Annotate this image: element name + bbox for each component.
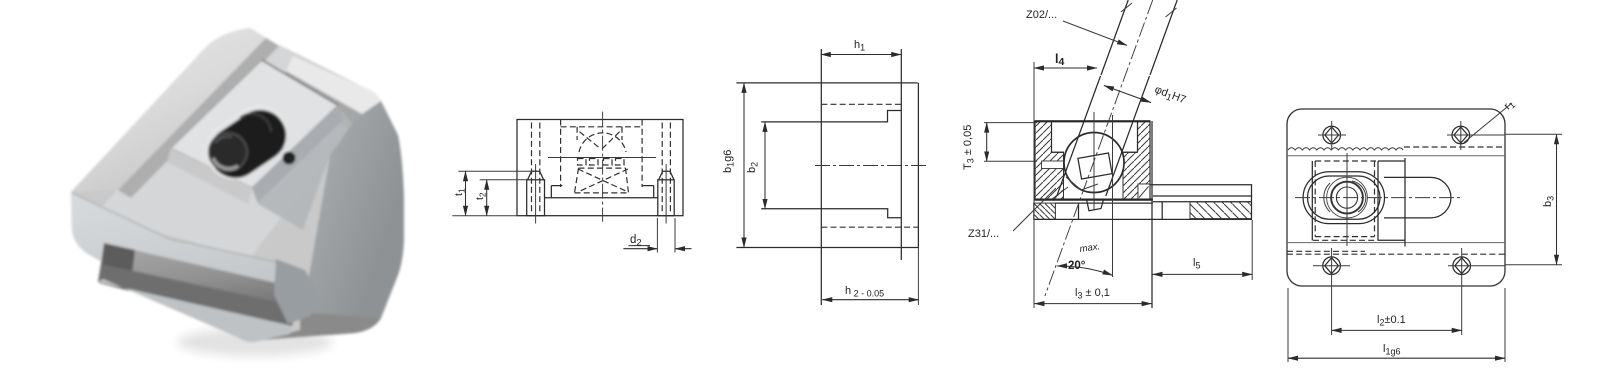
top region fill	[95, 33, 375, 258]
pin tip below block	[1087, 199, 1104, 210]
slot bottom shadow	[98, 264, 296, 326]
l3 dimension	[1034, 303, 1151, 305]
d2 extensions	[657, 218, 675, 253]
groove bottom profile	[761, 209, 901, 218]
hidden pocket trapezoid	[575, 168, 629, 193]
svg-text:b3: b3	[1542, 196, 1556, 207]
ridge line	[72, 193, 276, 262]
plate bottom line	[1287, 242, 1505, 244]
svg-text:l4: l4	[1055, 52, 1064, 68]
h1 dimension	[821, 54, 901, 56]
insert top	[171, 60, 338, 188]
b3 extensions	[1505, 134, 1562, 264]
pin tip rect	[1078, 153, 1112, 179]
svg-text:Z31/...: Z31/...	[968, 228, 999, 240]
bottom dashed lines	[1287, 250, 1365, 252]
bore highlight crescent	[213, 158, 238, 169]
Z31 leader	[1013, 188, 1056, 231]
hole bottom-right	[1453, 257, 1471, 275]
keyhole slot	[1384, 177, 1451, 218]
svg-text:Z02/...: Z02/...	[1026, 9, 1057, 21]
front face	[71, 192, 303, 342]
lower lip	[98, 279, 292, 342]
svg-text:φd1H7: φd1H7	[1152, 84, 1187, 108]
left wall hatch	[1035, 121, 1064, 199]
l5 right extension	[1251, 220, 1253, 280]
slot top edges	[1052, 121, 1138, 152]
plate top line	[1287, 155, 1505, 157]
inner rect A	[1312, 158, 1405, 247]
r1 leader	[1464, 103, 1512, 143]
pad right	[658, 180, 674, 216]
T3 dimension	[986, 123, 988, 162]
t1 dimension	[465, 171, 467, 216]
angle reference vertical	[1112, 115, 1114, 277]
block top edge thick	[1035, 120, 1150, 122]
right rail top	[286, 56, 381, 114]
pin left edge	[1101, 0, 1128, 75]
hidden line bottom	[821, 226, 918, 228]
phi d1 arrow	[1104, 86, 1151, 103]
t1 extension	[458, 170, 536, 172]
body outline	[517, 120, 683, 216]
insert shadow right	[252, 106, 352, 230]
hidden pocket X	[578, 169, 628, 192]
pin bore lines through ball	[1057, 76, 1150, 196]
horizontal centerline	[1295, 197, 1462, 199]
left rail inner wall	[118, 38, 279, 198]
seat line	[1052, 177, 1098, 199]
svg-text:max.: max.	[1079, 241, 1101, 255]
block outline	[1035, 121, 1150, 199]
tongue left edge	[820, 49, 822, 305]
svg-text:h 2 - 0.05: h 2 - 0.05	[845, 285, 884, 299]
oblong hole rim highlight	[196, 96, 297, 189]
right face	[303, 101, 404, 335]
pad centerline left	[535, 164, 537, 224]
svg-text:T3 ± 0,05: T3 ± 0,05	[962, 125, 976, 170]
center circles	[1331, 182, 1363, 214]
dark band	[274, 259, 322, 324]
VIEW5 top view	[1287, 97, 1562, 362]
plate left hatch square	[1034, 203, 1056, 219]
keyhole notch	[283, 152, 296, 165]
hole top-right	[1452, 126, 1470, 144]
l1g6 dimension	[1288, 357, 1505, 359]
b1g6 dimension	[743, 83, 745, 248]
VIEW3 side view	[722, 39, 926, 305]
counterbore arc	[240, 114, 271, 132]
horizontal centerline	[548, 157, 656, 159]
hidden line top	[821, 103, 901, 105]
plate bottom line	[1034, 218, 1252, 220]
pad left	[527, 180, 545, 216]
hidden hole lines right pad	[662, 123, 670, 215]
hidden funnel	[580, 132, 620, 149]
l2 extension lines (hole centerlines)	[1332, 248, 1462, 335]
pad right dome	[659, 171, 674, 180]
center vertical centerline	[602, 112, 604, 222]
svg-text:d2: d2	[630, 234, 642, 249]
bore hole ring	[209, 133, 247, 171]
Z02 leader	[1063, 21, 1127, 45]
bottom right rim	[262, 312, 381, 340]
svg-text:t1: t1	[453, 188, 466, 196]
svg-text:b2: b2	[746, 162, 760, 173]
svg-text:l5: l5	[1193, 257, 1200, 271]
top dashed line	[1404, 146, 1505, 148]
b2 dimension	[764, 122, 766, 209]
sketch arcs	[1324, 181, 1366, 212]
right edge vertical / l3 extension	[1151, 121, 1153, 308]
plate recess vertical	[1078, 203, 1080, 219]
right wall square diagonal	[1139, 187, 1149, 198]
hidden hole lines left pad	[532, 123, 540, 215]
left rail top	[71, 28, 266, 192]
20 deg arc	[1057, 266, 1113, 275]
svg-text:l2±0.1: l2±0.1	[1377, 314, 1406, 328]
step shoulder right	[643, 186, 654, 198]
l4 dimension	[1034, 67, 1097, 69]
T3 extensions	[984, 123, 1037, 162]
VIEW4 section view	[962, 0, 1252, 308]
feature vertical centerline	[1346, 153, 1348, 246]
slot recess	[98, 243, 298, 326]
right rail front wall	[280, 71, 362, 131]
t2 extension	[480, 179, 527, 181]
ball	[1064, 133, 1124, 193]
d2 dimension	[623, 248, 657, 250]
insert right crease	[262, 60, 338, 105]
l5 dimension	[1153, 273, 1253, 275]
pin axis dash-dot	[1045, 0, 1153, 296]
left extension line l4/l3	[1033, 62, 1035, 308]
inner rect B dashed	[1313, 161, 1378, 240]
svg-text:l1g6: l1g6	[1383, 343, 1400, 357]
left wall groove (white notch)	[1042, 161, 1064, 169]
right edge	[917, 83, 919, 248]
horizontal centerline	[815, 165, 926, 167]
h2 right extension	[917, 248, 919, 306]
plate top line	[1055, 202, 1153, 204]
top edge	[736, 82, 917, 84]
tongue right edge	[900, 49, 902, 260]
bottom extension	[452, 215, 517, 217]
insert lower-right wall	[252, 105, 344, 202]
right plate hatch	[1190, 202, 1252, 219]
plate top thick line	[1034, 199, 1153, 201]
svg-text:t2: t2	[474, 192, 487, 200]
h2 dimension	[822, 299, 918, 301]
plate verticals	[1162, 185, 1251, 220]
outer rounded rect	[1287, 109, 1505, 286]
bottom edge	[736, 247, 918, 249]
l2 dimension	[1332, 329, 1462, 331]
t2 dimension	[486, 180, 488, 216]
part silhouette	[71, 28, 404, 342]
right band lines	[1150, 185, 1252, 202]
right wall hatch	[1123, 121, 1150, 199]
hole top-left	[1323, 126, 1341, 144]
b3 dimension	[1556, 134, 1558, 264]
scalloped band	[1288, 148, 1403, 150]
insert lower-left wall	[167, 148, 252, 204]
l1g6 extensions	[1288, 288, 1505, 362]
pad centerline right	[665, 164, 667, 224]
pin right edge	[1150, 0, 1177, 75]
ball centerline	[1093, 112, 1095, 210]
pin break marks	[1121, 3, 1177, 17]
hidden groove rects	[578, 159, 625, 166]
slot notch	[99, 243, 135, 291]
outer stadium	[1303, 172, 1384, 224]
svg-text:b1g6: b1g6	[722, 150, 736, 173]
inner stadium	[1308, 176, 1381, 219]
step shoulder left	[551, 186, 562, 198]
svg-text:h1: h1	[854, 39, 865, 53]
ground shadow	[177, 328, 333, 356]
hidden inner verticals	[577, 127, 622, 140]
hole bottom-left	[1323, 257, 1341, 275]
right rail outer	[362, 104, 382, 168]
pad left dome	[528, 171, 544, 180]
groove top profile	[761, 111, 901, 122]
hidden ball arc	[579, 133, 626, 152]
plate line	[545, 197, 658, 199]
right wall white square	[1138, 184, 1150, 199]
oblong hole	[201, 101, 295, 187]
svg-text:l3 ± 0,1: l3 ± 0,1	[1075, 287, 1110, 301]
hidden bore rect	[561, 120, 643, 188]
VIEW2 front view	[452, 112, 691, 253]
